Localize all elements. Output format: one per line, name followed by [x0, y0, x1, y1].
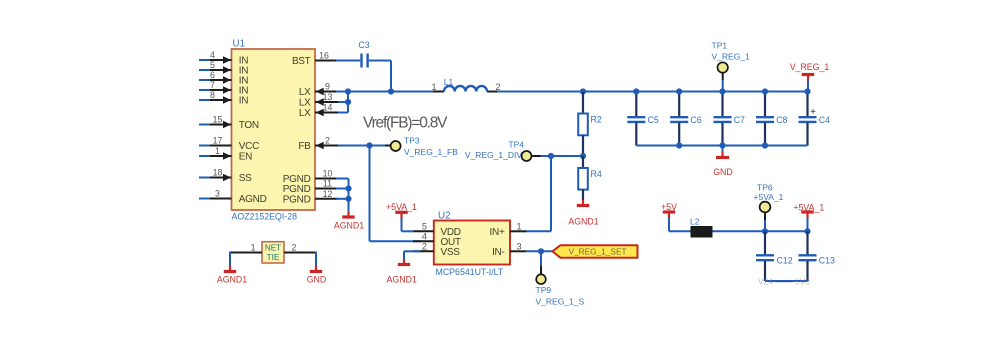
U1 pin 17 VCC	[199, 136, 259, 152]
junction divider mid	[580, 153, 586, 159]
op-amp/regulator U1 body	[232, 49, 316, 210]
svg-text:C7: C7	[734, 115, 745, 125]
junction top bus x=636.3	[633, 88, 639, 94]
svg-text:R2: R2	[591, 114, 602, 124]
U2 pin 5 VDD	[413, 221, 461, 238]
svg-text:L2: L2	[690, 217, 700, 227]
svg-text:MCP6541UT-I/LT: MCP6541UT-I/LT	[436, 267, 504, 277]
wire divider to U2 IN+	[525, 156, 551, 231]
junction bottom bus x=722.5	[719, 142, 725, 148]
junction TP4 node	[548, 153, 554, 159]
U1 pin 15 TON	[199, 115, 259, 131]
svg-text:+5V: +5V	[661, 202, 677, 212]
svg-text:TP1: TP1	[712, 41, 728, 51]
wire BST to C3	[336, 60, 360, 62]
power +5VA_1 at U2 VDD	[386, 202, 417, 232]
svg-text:4: 4	[210, 50, 215, 60]
U2 pin 3 IN-	[492, 241, 526, 258]
U1 pin 2 FB	[298, 136, 338, 152]
wire +5V to L2	[669, 230, 691, 232]
svg-text:C4: C4	[819, 115, 830, 125]
U1 pin 16 BST	[292, 51, 338, 67]
svg-text:+5VA_1: +5VA_1	[386, 202, 417, 212]
svg-text:EN: EN	[239, 152, 252, 163]
svg-text:18: 18	[213, 168, 223, 178]
junction C3 branch	[388, 88, 394, 94]
ground GND at net-tie	[307, 266, 327, 284]
ground AGND1 below U2	[387, 259, 417, 285]
wire FB to TP3	[338, 145, 391, 147]
svg-text:Vref(FB)=0.8V: Vref(FB)=0.8V	[363, 115, 448, 132]
svg-text:U1: U1	[233, 39, 246, 50]
svg-text:C8: C8	[776, 115, 787, 125]
power +5VA_1 right	[793, 202, 824, 231]
U1 pin 4 IN	[199, 50, 248, 66]
svg-text:12: 12	[323, 189, 333, 199]
svg-text:LX: LX	[299, 108, 311, 119]
testpoint TP6	[754, 182, 784, 231]
wire VSS to ground	[404, 251, 420, 259]
ground GND below cap bank	[713, 146, 733, 177]
svg-text:AGND1: AGND1	[217, 274, 247, 284]
wire L2 to +5VA_1 rail	[713, 230, 808, 232]
junction bottom bus x=679.2	[676, 142, 682, 148]
svg-text:C12: C12	[777, 255, 793, 265]
svg-text:FB: FB	[298, 141, 311, 152]
resistor R4	[578, 156, 602, 200]
testpoint TP4	[465, 140, 541, 161]
junction top bus x=765	[762, 88, 768, 94]
svg-text:C6: C6	[690, 115, 701, 125]
svg-text:AGND1: AGND1	[334, 221, 364, 231]
svg-text:2: 2	[422, 241, 427, 251]
capacitor C3	[358, 40, 369, 68]
testpoint TP9	[536, 251, 585, 306]
svg-text:V_REG_1: V_REG_1	[712, 52, 751, 62]
svg-text:13: 13	[323, 92, 333, 102]
junction bottom bus x=765	[762, 142, 768, 148]
wire LX bus vertical	[338, 92, 348, 113]
svg-text:TP9: TP9	[536, 285, 552, 295]
U1 pin 10 PGND	[283, 169, 338, 185]
U1 pin 11 PGND	[283, 179, 338, 195]
U1 pin 5 IN	[199, 60, 248, 76]
svg-text:R4: R4	[591, 169, 602, 179]
svg-text:+: +	[810, 107, 816, 118]
capacitor C6	[670, 93, 702, 146]
wire IN- to net label	[526, 250, 553, 252]
wire net-tie left down	[229, 252, 231, 267]
inductor L1	[431, 77, 500, 92]
wire net-tie right down	[315, 252, 317, 267]
U1 designator	[233, 39, 246, 50]
capacitor C8	[756, 93, 788, 146]
svg-text:U2: U2	[438, 211, 451, 222]
ground AGND1 at net-tie	[217, 266, 247, 284]
wire TP4 node	[540, 155, 583, 157]
capacitor C5	[627, 93, 659, 146]
svg-text:2: 2	[325, 136, 330, 146]
net label V_REG_1_SET	[553, 245, 638, 258]
svg-text:TP6: TP6	[757, 182, 773, 192]
junction top bus x=679.2	[676, 88, 682, 94]
svg-text:1: 1	[215, 146, 220, 156]
svg-text:C3: C3	[358, 40, 369, 50]
svg-text:5: 5	[422, 221, 427, 231]
junction top bus x=722.5	[719, 88, 725, 94]
svg-text:VCC: VCC	[239, 141, 259, 152]
net-tie pin 1	[230, 242, 262, 252]
svg-text:NET: NET	[265, 243, 281, 252]
U2 value MCP6541UT-I/LT	[436, 267, 504, 277]
svg-text:TIE: TIE	[267, 253, 280, 262]
net-tie pin 2	[284, 242, 316, 252]
svg-text:1: 1	[517, 221, 522, 231]
svg-text:AOZ2152EQI-28: AOZ2152EQI-28	[232, 212, 298, 222]
svg-text:V_REG_1_DIV: V_REG_1_DIV	[465, 150, 522, 160]
junction PGND 12	[345, 196, 351, 202]
svg-text:V_REG_1: V_REG_1	[790, 62, 830, 72]
svg-text:V_REG_1_SET: V_REG_1_SET	[568, 246, 626, 256]
svg-text:16: 16	[319, 51, 329, 61]
junction R2 top	[580, 88, 586, 94]
svg-text:10: 10	[323, 169, 333, 179]
junction C13 top	[804, 228, 810, 234]
wire LX to L1	[336, 91, 438, 93]
svg-text:15: 15	[213, 115, 223, 125]
svg-text:5: 5	[210, 60, 215, 70]
svg-text:+5VA_1: +5VA_1	[793, 202, 824, 212]
U1 pin 1 EN	[199, 146, 252, 162]
svg-text:1: 1	[251, 242, 256, 252]
testpoint TP1	[712, 41, 751, 92]
U1 pin 3 AGND	[199, 189, 267, 205]
wire bottom bus of cap bank	[636, 145, 807, 147]
U1 pin 6 IN	[199, 70, 248, 86]
resistor R2	[578, 92, 602, 156]
net-tie body	[262, 242, 284, 263]
svg-text:V_REG_1_S: V_REG_1_S	[536, 297, 585, 307]
wire FB down to U2 OUT	[370, 146, 422, 242]
svg-text:GND: GND	[713, 167, 733, 177]
U1 pin 8 IN	[199, 90, 248, 106]
svg-text:3: 3	[215, 189, 220, 199]
svg-text:L1: L1	[444, 77, 454, 87]
junction LX pin 9	[345, 88, 351, 94]
U2 pin 2 VSS	[413, 241, 460, 258]
U2 designator	[438, 211, 451, 222]
junction TP6	[762, 228, 768, 234]
svg-text:AGND1: AGND1	[387, 275, 417, 285]
svg-text:8: 8	[210, 90, 215, 100]
svg-text:SS: SS	[239, 173, 252, 184]
U1 value AOZ2152EQI-28	[232, 212, 298, 222]
svg-text:IN: IN	[239, 96, 248, 107]
svg-text:PGND: PGND	[283, 194, 311, 205]
power +5V	[661, 202, 677, 232]
U1 pin 13 LX	[299, 92, 338, 108]
svg-text:C5: C5	[648, 115, 659, 125]
faded ground text artifact	[758, 277, 810, 287]
capacitor C7	[714, 93, 746, 146]
svg-text:6: 6	[210, 70, 215, 80]
svg-text:GND: GND	[307, 274, 327, 284]
U1 pin 9 LX	[299, 82, 338, 98]
wire PGND bus	[336, 179, 349, 212]
wire L1 to output rail	[497, 91, 808, 93]
wire C3 to LX node	[369, 61, 391, 93]
testpoint TP3	[391, 136, 459, 157]
svg-text:TP3: TP3	[404, 136, 420, 146]
wire C12 C13 bottoms	[765, 280, 808, 282]
svg-text:7: 7	[210, 80, 215, 90]
junction LX pin 13	[345, 99, 351, 105]
svg-text:TON: TON	[239, 120, 259, 131]
svg-text:9: 9	[325, 82, 330, 92]
ground AGND1 below R4	[568, 200, 598, 227]
svg-text:IN+: IN+	[490, 227, 505, 238]
U2 pin 1 IN+	[490, 221, 526, 238]
svg-text:LX: LX	[299, 98, 311, 109]
comparator U2 body	[434, 221, 510, 265]
svg-text:AGND1: AGND1	[568, 217, 598, 227]
U1 pin 7 IN	[199, 80, 248, 96]
svg-text:V24 —— 5V3: V24 —— 5V3	[758, 277, 810, 287]
svg-text:14: 14	[323, 103, 333, 113]
U1 pin 12 PGND	[283, 189, 338, 205]
svg-text:3: 3	[517, 241, 522, 251]
capacitor C13	[799, 231, 836, 281]
svg-text:LX: LX	[299, 87, 311, 98]
capacitor C12	[756, 231, 793, 281]
svg-text:BST: BST	[292, 56, 311, 67]
svg-text:C13: C13	[819, 255, 835, 265]
svg-text:1: 1	[431, 82, 436, 92]
U1 pin 14 LX	[299, 103, 338, 119]
junction top bus x=807.5	[804, 88, 810, 94]
power V_REG_1	[790, 62, 830, 91]
ground AGND1 below PGND	[334, 212, 364, 231]
svg-text:4: 4	[422, 231, 427, 241]
junction FB branch	[366, 142, 372, 148]
svg-text:VSS: VSS	[441, 247, 461, 258]
svg-text:17: 17	[213, 136, 223, 146]
junction PGND 11	[345, 185, 351, 191]
U1 pin 18 SS	[199, 168, 252, 184]
ferrite bead L2	[690, 217, 713, 238]
svg-text:2: 2	[292, 242, 297, 252]
capacitor C4 (polarized)	[799, 93, 831, 146]
svg-text:TP4: TP4	[508, 140, 524, 150]
svg-text:AGND: AGND	[239, 194, 267, 205]
svg-text:11: 11	[323, 179, 332, 189]
svg-text:IN-: IN-	[492, 247, 504, 258]
note Vref(FB)=0.8V	[363, 115, 448, 132]
svg-text:V_REG_1_FB: V_REG_1_FB	[404, 147, 458, 157]
svg-text:+5VA_1: +5VA_1	[754, 192, 784, 202]
U2 pin 4 OUT	[413, 231, 461, 248]
junction TP9 branch	[538, 248, 544, 254]
